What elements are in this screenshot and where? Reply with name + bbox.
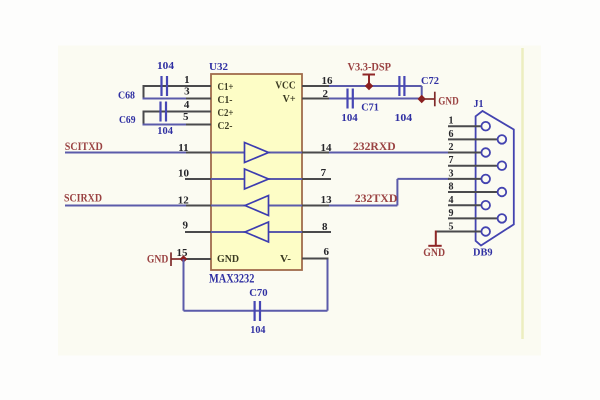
svg-text:C1+: C1+ bbox=[218, 82, 234, 93]
pin 13 stub bbox=[302, 205, 329, 207]
DB9 pin 6 stub bbox=[448, 138, 498, 140]
svg-text:8: 8 bbox=[322, 221, 328, 233]
svg-text:SCIRXD: SCIRXD bbox=[64, 191, 102, 205]
DB9 pin 8 stub bbox=[448, 191, 498, 193]
power symbol V3.3-DSP bbox=[363, 75, 376, 87]
svg-text:J1: J1 bbox=[474, 99, 484, 110]
svg-text:3: 3 bbox=[184, 86, 190, 98]
svg-text:C2+: C2+ bbox=[218, 108, 234, 119]
wire V- loop vertical left bbox=[183, 259, 185, 311]
svg-text:11: 11 bbox=[178, 142, 188, 154]
schematic sheet area bbox=[58, 46, 541, 356]
capacitor C69 plates bbox=[161, 102, 167, 122]
svg-text:9: 9 bbox=[183, 220, 189, 232]
svg-text:V3.3-DSP: V3.3-DSP bbox=[348, 60, 392, 74]
buffer T2 triangle bbox=[245, 169, 269, 189]
svg-text:4: 4 bbox=[184, 99, 190, 111]
pin 16 stub bbox=[302, 85, 329, 87]
capacitor C68 plates bbox=[162, 76, 168, 96]
pin 14 stub bbox=[302, 152, 329, 154]
wire V- loop bottom bbox=[184, 310, 328, 312]
pin 7 stub bbox=[302, 178, 331, 180]
svg-text:104: 104 bbox=[341, 112, 358, 124]
sheet border grid line bbox=[521, 48, 524, 339]
svg-text:12: 12 bbox=[178, 195, 190, 207]
wire T2 row inside chip bbox=[211, 178, 302, 180]
IC U32 MAX3232 body bbox=[211, 74, 302, 270]
DB9 pin 1 stub bbox=[448, 125, 481, 127]
net 232TXD wire bbox=[329, 205, 397, 207]
svg-text:C71: C71 bbox=[361, 102, 379, 114]
svg-text:104: 104 bbox=[157, 60, 175, 72]
capacitor C72 plates bbox=[399, 76, 404, 96]
svg-text:C1-: C1- bbox=[218, 95, 233, 106]
svg-text:GND: GND bbox=[423, 245, 445, 259]
svg-text:U32: U32 bbox=[209, 61, 229, 73]
svg-text:MAX3232: MAX3232 bbox=[209, 271, 254, 286]
pin 15 stub bbox=[184, 258, 212, 260]
svg-text:C2-: C2- bbox=[218, 121, 233, 132]
wire pin3 stub bbox=[186, 98, 211, 100]
svg-text:9: 9 bbox=[449, 208, 454, 219]
svg-text:13: 13 bbox=[321, 194, 333, 206]
wire VCC corner down bbox=[421, 86, 423, 99]
svg-text:V-: V- bbox=[280, 254, 292, 265]
svg-text:2: 2 bbox=[323, 88, 329, 100]
svg-text:4: 4 bbox=[449, 195, 454, 206]
pin 2 stub bbox=[302, 98, 329, 100]
capacitor C71 plates bbox=[348, 89, 353, 109]
wire pin3 net bbox=[143, 98, 187, 100]
DB9 pin 4 stub bbox=[448, 204, 481, 206]
wire pin1 lead bbox=[143, 85, 212, 87]
wire pin5 stub bbox=[186, 124, 211, 126]
DB9 pin 3 stub bbox=[448, 178, 481, 180]
wire R1 row inside chip bbox=[211, 205, 302, 207]
ground symbol top right bbox=[422, 92, 435, 107]
svg-text:GND: GND bbox=[438, 94, 459, 108]
wire DB9 pin5 to ground bbox=[435, 231, 437, 246]
svg-text:7: 7 bbox=[321, 167, 327, 179]
DB9 pin 7 stub bbox=[448, 165, 498, 167]
net 232TXD wire to DB9 bbox=[397, 178, 449, 180]
svg-text:GND: GND bbox=[147, 252, 169, 266]
svg-text:16: 16 bbox=[322, 75, 334, 87]
buffer R1 triangle bbox=[245, 196, 269, 216]
svg-text:14: 14 bbox=[321, 142, 333, 154]
buffer T1 triangle bbox=[245, 143, 269, 163]
svg-text:232TXD: 232TXD bbox=[355, 191, 398, 205]
svg-text:C72: C72 bbox=[421, 75, 439, 87]
junction GND top right bbox=[418, 95, 426, 103]
svg-text:VCC: VCC bbox=[275, 81, 296, 92]
net 232RXD wire bbox=[329, 152, 449, 154]
capacitor C68 bracket wire bbox=[143, 86, 145, 99]
DB9 pin circles bbox=[481, 122, 506, 236]
DB9 pin 5 stub bbox=[436, 231, 482, 233]
wire R2 row inside chip bbox=[211, 231, 302, 233]
pin 8 stub bbox=[302, 231, 331, 233]
svg-text:104: 104 bbox=[157, 125, 173, 137]
svg-text:1: 1 bbox=[184, 74, 190, 86]
svg-text:3: 3 bbox=[449, 169, 454, 180]
svg-text:C69: C69 bbox=[119, 114, 136, 126]
DB9 pin 9 stub bbox=[448, 217, 498, 219]
svg-text:SCITXD: SCITXD bbox=[65, 139, 103, 153]
svg-text:V+: V+ bbox=[283, 94, 296, 105]
pin 6 stub bbox=[302, 258, 329, 260]
net 232TXD wire vertical bbox=[396, 179, 398, 206]
svg-text:5: 5 bbox=[449, 221, 454, 232]
ground symbol bottom bbox=[428, 245, 441, 247]
pin 11 stub bbox=[186, 152, 211, 154]
ground symbol at pin 15 bbox=[171, 252, 184, 266]
junction V3.3 bbox=[365, 82, 373, 90]
capacitor C70 plates bbox=[255, 301, 260, 321]
capacitor C69 bracket wire bbox=[143, 112, 145, 125]
pin 12 stub bbox=[186, 205, 211, 207]
svg-text:10: 10 bbox=[178, 168, 190, 180]
wire pin5 net bbox=[143, 124, 187, 126]
DB9 pin 2 stub bbox=[448, 152, 481, 154]
svg-text:C68: C68 bbox=[118, 90, 135, 102]
net SCIRXD wire bbox=[65, 205, 186, 207]
svg-text:7: 7 bbox=[449, 155, 454, 166]
svg-text:GND: GND bbox=[217, 254, 239, 265]
svg-text:232RXD: 232RXD bbox=[353, 139, 396, 153]
svg-text:104: 104 bbox=[395, 112, 413, 124]
wire V- loop vertical right bbox=[327, 259, 329, 311]
net SCITXD wire bbox=[65, 152, 186, 154]
svg-text:6: 6 bbox=[449, 129, 454, 140]
svg-text:104: 104 bbox=[250, 324, 266, 336]
svg-text:1: 1 bbox=[449, 116, 454, 127]
svg-text:2: 2 bbox=[449, 142, 454, 153]
svg-text:5: 5 bbox=[183, 111, 189, 123]
wire VCC net bbox=[329, 85, 422, 87]
pin 10 stub bbox=[185, 178, 211, 180]
svg-text:8: 8 bbox=[449, 182, 454, 193]
junction pin15 bbox=[180, 255, 188, 263]
svg-text:DB9: DB9 bbox=[473, 247, 493, 259]
connector J1 body DB9 bbox=[476, 111, 514, 246]
buffer R2 triangle bbox=[245, 222, 269, 242]
pin 9 stub bbox=[185, 231, 211, 233]
svg-text:6: 6 bbox=[324, 246, 330, 258]
wire pin4 lead bbox=[143, 111, 212, 113]
wire T1 row inside chip bbox=[211, 152, 302, 154]
svg-text:C70: C70 bbox=[249, 287, 268, 299]
wire V+ net bbox=[329, 98, 422, 100]
